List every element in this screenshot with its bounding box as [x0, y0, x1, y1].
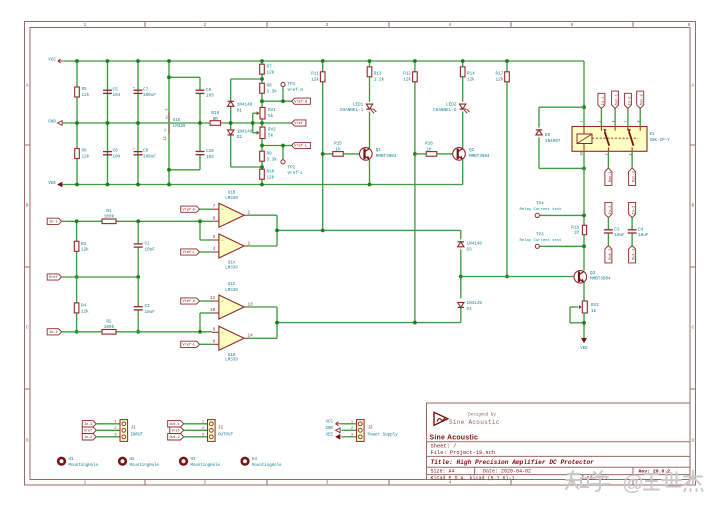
svg-text:Date: 2020-04-02: Date: 2020-04-02: [483, 469, 531, 475]
wire Q1 emitter: [369, 159, 371, 184]
svg-text:Out-2: Out-2: [169, 436, 179, 440]
resistor R4: [74, 303, 79, 313]
svg-text:104: 104: [113, 93, 121, 98]
global label Vref (input): [47, 274, 61, 280]
wire C1 column: [137, 221, 139, 244]
wire VCC to relay: [583, 61, 585, 127]
junction: [321, 59, 325, 63]
test point TP1: [281, 82, 285, 86]
svg-text:Vref-L: Vref-L: [183, 343, 196, 348]
connector J2: [208, 420, 216, 442]
global label In-2 (relay top): [624, 93, 631, 108]
junction: [321, 229, 325, 233]
capacitor C9: [196, 89, 205, 91]
junction: [106, 183, 110, 187]
svg-text:104: 104: [113, 155, 121, 160]
junction: [505, 59, 509, 63]
svg-text:LED1: LED1: [353, 102, 364, 107]
capacitor C2: [134, 306, 143, 308]
wire R5/R6 column: [76, 61, 78, 185]
title block frame: [427, 403, 691, 480]
svg-text:KiCad E.D.A. kicad (5.1.6)-1: KiCad E.D.A. kicad (5.1.6)-1: [431, 476, 515, 482]
svg-text:5k: 5k: [268, 114, 274, 119]
svg-text:2: 2: [351, 427, 353, 431]
svg-text:Relay Current test: Relay Current test: [519, 238, 561, 243]
global label Vref-H: [292, 98, 311, 104]
trimpot RV2: [260, 127, 265, 139]
svg-text:R12: R12: [403, 72, 411, 77]
global label In-2 (cap top): [629, 202, 636, 217]
capacitor C7: [134, 89, 143, 91]
watermark zhihu: [566, 471, 579, 489]
wire upper OR line: [277, 229, 461, 231]
junction: [167, 183, 171, 187]
junction: [167, 168, 171, 172]
svg-text:H4: H4: [252, 458, 257, 462]
svg-text:G6K-2P-Y: G6K-2P-Y: [650, 139, 671, 143]
svg-text:In-2: In-2: [84, 436, 92, 440]
resistor R19: [210, 121, 221, 126]
svg-text:Vref-L: Vref-L: [294, 144, 307, 149]
svg-text:U1E: U1E: [173, 119, 181, 123]
resistor R18: [582, 225, 586, 234]
svg-text:D: D: [691, 439, 694, 444]
svg-text:7: 7: [213, 204, 216, 209]
trimpot RV3: [582, 301, 587, 313]
svg-text:Vref: Vref: [84, 429, 92, 434]
global label In-1 (cap top): [605, 202, 612, 217]
svg-text:1: 1: [84, 481, 87, 486]
diode D3: [458, 242, 464, 247]
junction: [136, 330, 140, 334]
wire Vref-H node: [262, 100, 292, 102]
svg-text:+: +: [133, 148, 135, 152]
svg-text:R10: R10: [267, 170, 275, 175]
global label In-1 (relay top): [598, 93, 605, 108]
resistor R14: [460, 67, 465, 77]
test point TP3: [535, 244, 539, 248]
svg-text:C: C: [691, 326, 694, 331]
svg-text:In-1: In-1: [609, 205, 613, 215]
wire U1C/U1D outputs: [248, 306, 277, 308]
svg-text:5: 5: [213, 235, 216, 240]
junction: [281, 99, 285, 103]
svg-text:Vref-H: Vref-H: [294, 99, 307, 104]
svg-text:+: +: [133, 87, 135, 91]
svg-text:4: 4: [213, 247, 216, 252]
trimpot RV1: [260, 107, 265, 119]
svg-text:11: 11: [210, 296, 216, 301]
wire C4 bottom: [631, 233, 633, 245]
svg-text:Out-2: Out-2: [633, 171, 637, 182]
svg-text:Vref: Vref: [294, 121, 303, 126]
transistor Q1: [360, 148, 373, 161]
global label In-2: [47, 329, 61, 335]
svg-text:Sine Acoustic: Sine Acoustic: [449, 419, 500, 426]
svg-text:H1: H1: [69, 458, 74, 462]
junction: [75, 59, 79, 63]
svg-text:C1: C1: [145, 242, 151, 247]
svg-text:10: 10: [574, 230, 580, 235]
svg-text:0R: 0R: [213, 117, 219, 122]
junction: [413, 152, 417, 156]
svg-text:12k: 12k: [403, 77, 411, 82]
capacitor C10: [196, 151, 205, 153]
wire U1A plus input: [199, 221, 201, 240]
junction: [413, 59, 417, 63]
svg-text:Out-2: Out-2: [641, 94, 645, 105]
svg-text:12k: 12k: [81, 309, 89, 314]
svg-text:Out-2: Out-2: [633, 249, 637, 260]
global label Vref-H (U1C): [181, 298, 200, 304]
svg-text:12k: 12k: [496, 77, 504, 82]
svg-text:MountingHole: MountingHole: [252, 463, 282, 468]
junction: [167, 59, 171, 63]
LED LED1: [366, 104, 372, 109]
wire U1C minus input: [199, 313, 201, 332]
wire lower OR line: [277, 322, 461, 324]
svg-text:1k: 1k: [335, 147, 341, 152]
svg-text:C5: C5: [113, 87, 119, 92]
svg-text:-: -: [221, 221, 223, 225]
svg-text:R13: R13: [374, 72, 382, 77]
svg-text:10uF: 10uF: [145, 310, 156, 315]
junction: [321, 152, 325, 156]
svg-text:R1: R1: [106, 209, 112, 214]
svg-text:10uF: 10uF: [638, 233, 649, 238]
resistor R9: [260, 151, 265, 161]
wire Q3 emitter: [583, 282, 585, 301]
svg-text:Out-1: Out-1: [169, 423, 179, 427]
svg-text:Q3: Q3: [590, 271, 596, 276]
svg-text:R7: R7: [267, 65, 273, 70]
svg-text:C2: C2: [145, 304, 151, 309]
svg-text:D4: D4: [467, 307, 473, 312]
diode D5: [536, 130, 542, 135]
global label In-2 (row): [82, 434, 96, 440]
svg-text:C10: C10: [206, 149, 214, 154]
svg-text:J2: J2: [218, 427, 224, 431]
svg-text:100k: 100k: [104, 215, 115, 220]
svg-text:Q2: Q2: [469, 148, 475, 153]
capacitor C3: [604, 229, 613, 231]
svg-text:V-: V-: [165, 127, 169, 131]
svg-text:R5: R5: [82, 87, 88, 92]
logo Sine Acoustic: [434, 412, 448, 425]
wire RV2 wiper: [252, 123, 254, 133]
junction: [229, 121, 233, 125]
svg-text:1: 1: [351, 420, 353, 424]
junction: [368, 59, 372, 63]
wire C5/C6 column: [107, 61, 109, 185]
wire D2 branch: [230, 123, 232, 130]
junction: [251, 121, 255, 125]
svg-text:1: 1: [84, 23, 87, 28]
junction: [461, 59, 465, 63]
svg-text:C4: C4: [638, 227, 644, 232]
svg-text:B: B: [26, 204, 29, 209]
capacitor C5: [103, 89, 112, 91]
wire VCC rail: [64, 60, 584, 62]
svg-text:1N4007: 1N4007: [545, 139, 561, 144]
svg-text:Vref: Vref: [172, 429, 180, 434]
wire Q3 base line: [461, 276, 574, 278]
svg-text:103: 103: [206, 94, 214, 99]
relay K1: [572, 127, 647, 152]
junction: [505, 275, 509, 279]
svg-text:Title: High Precision Amplifie: Title: High Precision Amplifier DC Prote…: [431, 459, 595, 466]
junction: [413, 321, 417, 325]
svg-text:LM339: LM339: [173, 125, 186, 129]
svg-text:6: 6: [688, 23, 691, 28]
svg-text:C8: C8: [143, 149, 149, 154]
svg-text:Q1: Q1: [376, 148, 382, 153]
junction: [260, 59, 264, 63]
junction: [459, 275, 463, 279]
svg-text:Designed by: Designed by: [468, 413, 496, 418]
svg-text:TP1: TP1: [288, 82, 296, 87]
svg-text:100k: 100k: [104, 325, 115, 330]
svg-text:TP3: TP3: [536, 233, 544, 238]
svg-text:J1: J1: [131, 427, 137, 431]
wire: [96, 423, 120, 425]
svg-text:Vref-H: Vref-H: [288, 88, 304, 93]
svg-text:3: 3: [326, 23, 329, 28]
svg-text:OUTPUT: OUTPUT: [218, 434, 234, 438]
svg-text:Out-1: Out-1: [616, 93, 620, 105]
svg-text:100uF: 100uF: [143, 155, 156, 160]
junction: [198, 219, 202, 223]
svg-text:R17: R17: [496, 72, 504, 77]
svg-text:2: 2: [114, 427, 116, 431]
svg-text:D5: D5: [545, 133, 551, 138]
svg-text:103: 103: [206, 155, 214, 160]
wire: [184, 436, 208, 438]
power flag VEE (Q3): [581, 338, 587, 343]
svg-text:12k: 12k: [267, 175, 275, 180]
svg-text:In-1: In-1: [49, 221, 58, 225]
wire VEE rail: [63, 184, 463, 186]
wire: [342, 436, 357, 438]
op-amp U1D: [219, 326, 244, 350]
svg-text:5: 5: [571, 23, 574, 28]
svg-text:LM339: LM339: [225, 197, 238, 201]
global label Vref-L (U1A): [181, 249, 200, 255]
resistor R15: [333, 152, 344, 157]
svg-text:RV2: RV2: [268, 128, 276, 133]
wire Vref-L node: [262, 145, 292, 147]
diode D4: [458, 302, 464, 307]
wire GND rail: [63, 122, 210, 124]
global label In-1: [47, 218, 61, 224]
svg-text:Out-1: Out-1: [609, 170, 613, 182]
wire C3 top: [607, 218, 609, 230]
junction: [260, 144, 264, 148]
svg-text:10uF: 10uF: [614, 233, 625, 238]
svg-text:R3: R3: [81, 242, 87, 247]
svg-text:R6: R6: [82, 149, 88, 154]
global label Out-1 (relay bottom): [605, 168, 612, 185]
resistor R2: [102, 330, 116, 335]
svg-text:Sheet: /: Sheet: /: [431, 444, 457, 450]
svg-text:16: 16: [580, 152, 584, 156]
test point TP4: [535, 213, 539, 217]
svg-text:D2: D2: [237, 135, 243, 140]
svg-text:R8: R8: [267, 84, 273, 89]
svg-text:K1: K1: [650, 133, 656, 137]
svg-text:D3: D3: [467, 248, 473, 253]
wire R3 column: [76, 221, 78, 277]
wire R15 to Q1: [343, 153, 359, 155]
junction: [136, 219, 140, 223]
svg-text:LM339: LM339: [225, 266, 238, 270]
resistor R13: [367, 67, 372, 77]
wire divider chain: [261, 61, 263, 65]
svg-text:J3: J3: [368, 427, 374, 431]
svg-text:1k: 1k: [591, 309, 597, 314]
wire Q2 emitter: [462, 159, 464, 184]
wire R17 column: [506, 61, 508, 277]
svg-text:12k: 12k: [311, 77, 319, 82]
diode D1: [228, 101, 234, 106]
svg-text:VCC: VCC: [48, 58, 56, 63]
svg-text:H2: H2: [130, 458, 135, 462]
connector J3: [357, 420, 365, 442]
junction: [260, 183, 264, 187]
diode D2: [228, 130, 234, 135]
svg-text:A: A: [26, 84, 29, 89]
svg-text:3: 3: [114, 433, 116, 437]
svg-text:1N4148: 1N4148: [237, 129, 253, 134]
junction: [75, 219, 79, 223]
global label Out-1 (cap bottom): [605, 246, 612, 263]
svg-text:12k: 12k: [82, 93, 90, 98]
svg-text:12k: 12k: [82, 154, 90, 159]
svg-text:Vref-L: Vref-L: [288, 171, 304, 176]
svg-text:10uF: 10uF: [145, 248, 156, 253]
global label Out-1 (relay top): [612, 91, 619, 108]
mounting hole H1: [58, 458, 65, 465]
wire C10 branch: [199, 123, 201, 151]
global label Out-2 (relay top): [637, 91, 644, 108]
junction: [75, 121, 79, 125]
resistor R12: [413, 72, 418, 82]
svg-text:100uF: 100uF: [143, 93, 156, 98]
svg-text:VEE: VEE: [580, 347, 588, 351]
wire In-2 line: [62, 331, 102, 333]
svg-text:R15: R15: [334, 142, 342, 147]
svg-text:@: @: [622, 471, 644, 495]
svg-text:C: C: [26, 326, 29, 331]
svg-text:2: 2: [204, 23, 207, 28]
wire R4 column: [76, 277, 78, 332]
wire: [184, 423, 208, 425]
mounting hole H2: [119, 458, 126, 465]
resistor R10: [260, 169, 265, 179]
svg-text:3: 3: [165, 108, 169, 110]
wire RV3 wiper loop: [570, 306, 578, 308]
junction: [198, 121, 202, 125]
svg-text:3.3k: 3.3k: [267, 89, 278, 94]
global label Out-2 (cap bottom): [629, 246, 636, 263]
svg-text:Power Supply: Power Supply: [368, 433, 399, 438]
svg-text:Vref-H: Vref-H: [183, 207, 196, 212]
resistor R17: [505, 72, 510, 82]
wire: [342, 429, 357, 431]
svg-text:Sine Acoustic: Sine Acoustic: [430, 434, 479, 441]
junction: [75, 183, 79, 187]
junction: [106, 121, 110, 125]
svg-text:Vref-H: Vref-H: [183, 299, 196, 304]
junction: [368, 183, 372, 187]
svg-text:3: 3: [351, 433, 353, 437]
junction: [198, 330, 202, 334]
svg-text:6: 6: [213, 216, 216, 221]
svg-text:1N4148: 1N4148: [467, 242, 483, 247]
mounting hole H3: [180, 458, 187, 465]
svg-text:RV1: RV1: [268, 108, 276, 113]
svg-text:MountingHole: MountingHole: [191, 463, 221, 468]
wire In-1 line: [62, 220, 102, 222]
mounting hole H4: [242, 458, 249, 465]
junction: [281, 144, 285, 148]
svg-text:1: 1: [202, 420, 204, 424]
wire D1 branch: [231, 78, 262, 80]
wire Q2 collector branch: [462, 61, 464, 66]
svg-text:In-2: In-2: [628, 96, 632, 105]
wire Vref line: [62, 276, 139, 278]
svg-text:-: -: [221, 313, 223, 317]
svg-text:C7: C7: [143, 87, 149, 92]
svg-text:5k: 5k: [268, 133, 274, 138]
svg-text:MMBT3904: MMBT3904: [376, 154, 397, 159]
op-amp U1B: [219, 203, 244, 227]
LED LED2: [460, 104, 466, 109]
svg-text:12: 12: [164, 136, 168, 140]
svg-text:2: 2: [202, 427, 204, 431]
junction: [275, 229, 279, 233]
junction: [136, 275, 140, 279]
svg-text:12k: 12k: [81, 248, 89, 253]
svg-text:MMBT3904: MMBT3904: [590, 277, 611, 282]
svg-text:TP4: TP4: [536, 202, 544, 207]
svg-text:R16: R16: [425, 142, 433, 147]
svg-text:VEE: VEE: [48, 181, 56, 186]
resistor R16: [426, 152, 437, 157]
op-amp U1A: [219, 234, 244, 258]
svg-text:9: 9: [213, 327, 216, 332]
svg-text:File: Project-19.sch: File: Project-19.sch: [431, 450, 496, 456]
svg-text:1N4148: 1N4148: [237, 103, 253, 108]
svg-text:LM339: LM339: [225, 359, 238, 363]
wire C4 top: [631, 218, 633, 230]
svg-text:MountingHole: MountingHole: [69, 463, 99, 468]
svg-text:RV3: RV3: [591, 303, 599, 308]
svg-text:VEE: VEE: [325, 434, 333, 438]
svg-text:3: 3: [202, 433, 204, 437]
svg-text:MountingHole: MountingHole: [130, 463, 160, 468]
svg-text:2: 2: [204, 481, 207, 486]
svg-text:INPUT: INPUT: [131, 434, 144, 438]
resistor R5: [75, 87, 80, 97]
test point TP2: [281, 160, 285, 164]
wire relay pin: [639, 109, 641, 127]
svg-text:4: 4: [449, 23, 452, 28]
junction: [136, 59, 140, 63]
junction: [582, 167, 586, 171]
svg-text:D: D: [26, 439, 29, 444]
wire relay pin: [627, 109, 629, 127]
